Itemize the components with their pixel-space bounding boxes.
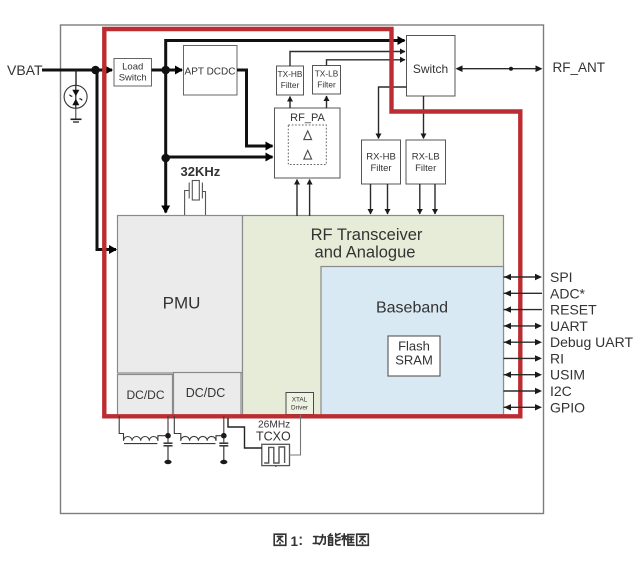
wire top rail to Switch [166, 41, 405, 71]
pin RESET [504, 302, 598, 318]
svg-text:GPIO: GPIO [550, 399, 585, 415]
wire APT DCDC to RF_PA upper [237, 70, 273, 146]
wire rail to RF_PA lower [166, 156, 273, 159]
block XTAL Driver [286, 393, 314, 415]
svg-text:RX-LB: RX-LB [412, 152, 440, 163]
svg-text:and Analogue: and Analogue [315, 244, 416, 262]
svg-text:APT DCDC: APT DCDC [185, 67, 236, 78]
block APT DCDC [184, 46, 238, 96]
svg-text:Debug UART: Debug UART [550, 334, 633, 350]
block PMU [118, 216, 243, 374]
svg-text:TCXO: TCXO [256, 430, 291, 444]
crystal 32KHz [185, 181, 206, 216]
svg-text:TX-LB: TX-LB [315, 69, 339, 79]
capacitor C2 [219, 443, 228, 460]
pin ADC* [504, 285, 586, 301]
svg-text:UART: UART [550, 318, 588, 334]
svg-text:Switch: Switch [413, 62, 448, 76]
module outer border [61, 25, 544, 514]
svg-text:SRAM: SRAM [395, 353, 433, 368]
svg-text:TX-HB: TX-HB [278, 69, 303, 79]
svg-text:DC/DC: DC/DC [186, 386, 226, 400]
svg-text:32KHz: 32KHz [181, 164, 221, 179]
svg-text:Load: Load [122, 62, 143, 73]
svg-text:ADC*: ADC* [550, 285, 586, 301]
svg-text:Filter: Filter [415, 163, 436, 174]
svg-text:PMU: PMU [163, 294, 201, 313]
svg-text:Driver: Driver [291, 405, 309, 412]
wire RF_PA to TX-LB filter [326, 96, 328, 108]
svg-text:RF_ANT: RF_ANT [553, 60, 606, 75]
svg-text:USIM: USIM [550, 367, 585, 383]
wire Load Switch to APT DCDC [152, 69, 183, 72]
pin UART [504, 318, 589, 334]
glyph 图 (second) [357, 534, 369, 545]
svg-text:SPI: SPI [550, 269, 573, 285]
pin GPIO [504, 399, 586, 415]
inductor L2 under DC/DC right [174, 416, 224, 444]
block DC/DC right [174, 373, 242, 416]
pin RI [504, 350, 565, 366]
svg-text:RX-HB: RX-HB [366, 152, 396, 163]
block Baseband [321, 267, 504, 416]
crystal 26MHz TCXO [262, 444, 290, 467]
ground DC/DC right [220, 460, 227, 464]
wire vertical rail down to PMU [164, 70, 167, 213]
ground below TVS [71, 119, 82, 122]
svg-text:XTAL: XTAL [292, 397, 308, 404]
svg-text:Filter: Filter [281, 80, 300, 90]
caption 图1 功能框图 (CJK drawn as paths) [274, 534, 368, 549]
block Load Switch [114, 59, 152, 87]
svg-text:RF_PA: RF_PA [290, 112, 325, 124]
svg-text:DC/DC: DC/DC [127, 388, 165, 402]
TVS diode D1 [64, 70, 87, 119]
block DC/DC left [118, 375, 173, 416]
inductor L1 under DC/DC left [119, 416, 168, 444]
wire VBAT down to PMU [97, 70, 116, 250]
pin SPI [504, 269, 573, 285]
block TX-LB Filter [313, 66, 341, 95]
svg-text:RESET: RESET [550, 302, 597, 318]
svg-text:Baseband: Baseband [376, 300, 448, 317]
svg-text:Filter: Filter [317, 80, 336, 90]
glyph 能 [329, 534, 340, 546]
svg-text:RF Transceiver: RF Transceiver [311, 226, 423, 244]
svg-text:I2C: I2C [550, 383, 572, 399]
wire TX-HB filter to Switch [290, 52, 405, 67]
svg-text:Switch: Switch [119, 73, 147, 84]
svg-text:Flash: Flash [398, 339, 430, 354]
block RX-LB Filter [406, 140, 446, 184]
ground DC/DC left [164, 460, 171, 464]
glyph 框 [342, 534, 354, 546]
wire Switch to RX-LB filter [423, 96, 425, 139]
wire VBAT to Load Switch [42, 69, 112, 72]
svg-text:Filter: Filter [370, 163, 391, 174]
pin I2C [504, 383, 572, 399]
pin Debug UART [504, 334, 634, 350]
wires transceiver to RF_PA bottom [296, 180, 298, 217]
fullwidth colon [300, 537, 302, 545]
block RF_PA [275, 108, 341, 178]
wire RF_PA to TX-HB filter [289, 97, 291, 109]
node junction after Load Switch [161, 66, 170, 75]
svg-text:1: 1 [291, 534, 299, 549]
node junction at 32KHz branch [161, 154, 170, 163]
node VBAT junction [91, 66, 100, 75]
block TX-HB Filter [277, 66, 304, 95]
block Flash SRAM [388, 336, 440, 376]
glyph 图 [274, 534, 286, 545]
node DC/DC right output [221, 433, 227, 439]
wire Switch to RX-HB filter [379, 87, 407, 139]
node DC/DC left output [165, 433, 171, 439]
pin USIM [504, 367, 586, 383]
block RX-HB Filter [362, 140, 401, 184]
wire Switch to RF_ANT [456, 65, 543, 72]
capacitor C1 [164, 443, 173, 460]
red highlight rectangle [104, 29, 520, 416]
block Switch [407, 36, 456, 97]
wire DC/DC to TCXO [228, 418, 262, 448]
wire TX-LB filter to Switch [327, 60, 406, 66]
wires RX-LB filter to transceiver [419, 184, 421, 214]
svg-text:RI: RI [550, 350, 564, 366]
glyph 功 [313, 535, 325, 545]
wire TCXO to XTAL Driver [290, 415, 301, 456]
block RF Transceiver and Analogue [243, 216, 504, 416]
wires RX-HB filter to transceiver [370, 184, 372, 214]
svg-text:VBAT: VBAT [7, 62, 43, 78]
